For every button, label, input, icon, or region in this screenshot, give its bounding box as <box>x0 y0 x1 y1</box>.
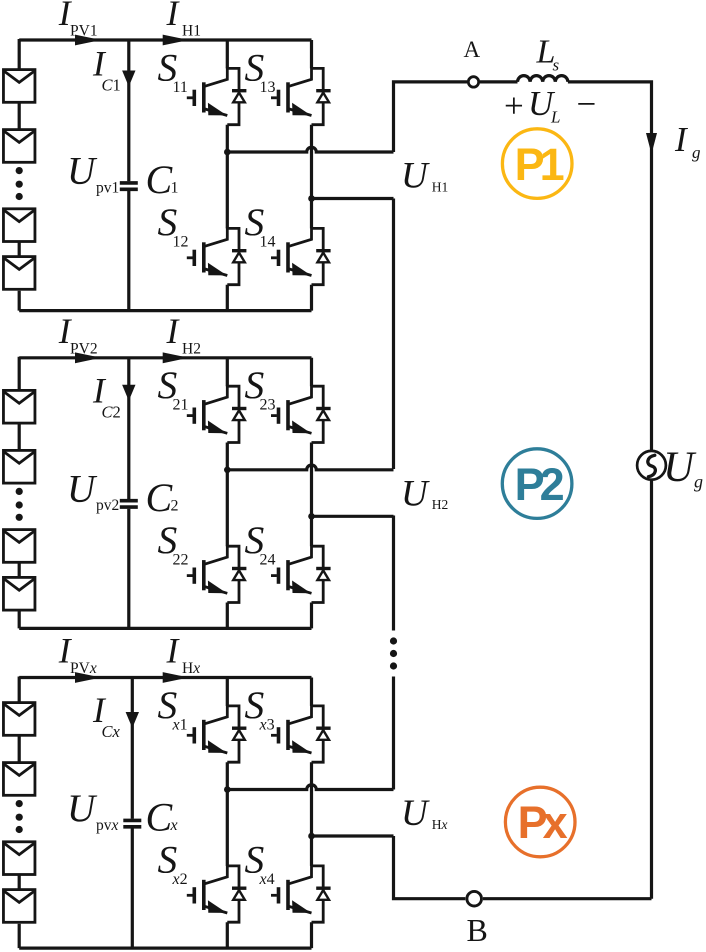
svg-text:U: U <box>67 787 98 830</box>
svg-text:C: C <box>146 475 174 520</box>
svg-text:Hx: Hx <box>182 660 200 677</box>
svg-text:H1: H1 <box>182 23 201 40</box>
svg-text:pvx: pvx <box>96 817 119 834</box>
svg-text:PV2: PV2 <box>70 340 98 357</box>
svg-text:pv2: pv2 <box>96 497 119 514</box>
svg-text:13: 13 <box>260 79 276 96</box>
svg-text:x4: x4 <box>259 871 275 888</box>
svg-text:22: 22 <box>173 552 189 569</box>
svg-text:x2: x2 <box>172 871 188 888</box>
svg-text:s: s <box>553 56 560 75</box>
svg-text:Px: Px <box>518 797 568 848</box>
svg-text:g: g <box>692 143 701 162</box>
svg-text:14: 14 <box>260 234 276 251</box>
svg-text:2: 2 <box>171 497 179 514</box>
svg-text:C1: C1 <box>102 76 121 95</box>
svg-text:I: I <box>166 0 181 33</box>
svg-text:−: − <box>577 85 597 124</box>
svg-text:A: A <box>464 37 481 62</box>
svg-text:23: 23 <box>260 397 276 414</box>
svg-text:24: 24 <box>260 552 276 569</box>
svg-text:21: 21 <box>173 397 189 414</box>
svg-text:U: U <box>401 474 430 515</box>
svg-text:I: I <box>166 311 181 351</box>
svg-text:U: U <box>401 156 430 197</box>
svg-text:Hx: Hx <box>432 817 448 832</box>
svg-text:P1: P1 <box>515 139 564 190</box>
svg-text:g: g <box>694 472 703 492</box>
svg-text:I: I <box>166 631 181 671</box>
svg-text:H1: H1 <box>432 179 449 194</box>
svg-text:U: U <box>67 150 98 193</box>
svg-text:12: 12 <box>173 234 189 251</box>
svg-text:1: 1 <box>171 180 179 197</box>
svg-text:PV1: PV1 <box>70 23 98 40</box>
svg-text:C: C <box>146 795 174 840</box>
svg-text:11: 11 <box>173 79 188 96</box>
svg-text:L: L <box>550 108 560 127</box>
svg-text:Cx: Cx <box>102 722 121 741</box>
svg-text:B: B <box>467 912 488 948</box>
svg-text:x1: x1 <box>172 716 188 733</box>
svg-text:U: U <box>401 793 430 834</box>
svg-text:PVx: PVx <box>70 660 97 677</box>
svg-text:U: U <box>67 468 98 511</box>
svg-text:H2: H2 <box>182 340 201 357</box>
svg-text:x3: x3 <box>259 716 275 733</box>
svg-text:H2: H2 <box>432 497 449 512</box>
svg-text:U: U <box>663 444 697 491</box>
svg-text:+: + <box>504 87 524 126</box>
svg-text:C2: C2 <box>102 402 121 421</box>
svg-text:P2: P2 <box>515 459 564 510</box>
svg-text:pv1: pv1 <box>96 179 119 196</box>
svg-text:x: x <box>170 817 178 834</box>
svg-text:C: C <box>146 157 174 202</box>
